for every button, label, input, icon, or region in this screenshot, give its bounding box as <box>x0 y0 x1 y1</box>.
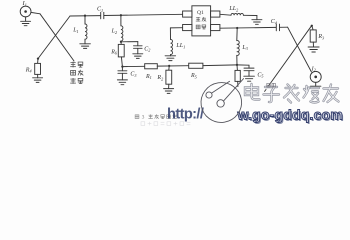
svg-text:C1: C1 <box>97 7 103 13</box>
svg-text:L2: L2 <box>111 29 117 35</box>
op-amp U1 box Q1 (amplifier module) <box>183 6 220 36</box>
node (L1 junction) <box>84 15 86 17</box>
capacitor C4 (series output) <box>276 24 279 31</box>
ground under C5 <box>244 76 255 81</box>
node (L2 junction) <box>120 14 122 16</box>
svg-text:R4: R4 <box>25 67 32 73</box>
svg-text:w.go-gddq.com: w.go-gddq.com <box>237 107 344 123</box>
ground under LL1 <box>165 56 176 61</box>
resistor R5 (horizontal) <box>189 63 203 68</box>
svg-text:3: 3 <box>142 115 145 121</box>
caption faint second row <box>141 122 190 126</box>
svg-text:C5: C5 <box>257 72 263 78</box>
svg-text:R6: R6 <box>110 49 118 55</box>
annotation hand-drawn circle <box>198 79 244 126</box>
resistor R7 (under bias junction) <box>235 65 240 87</box>
resistor R3 <box>310 26 316 47</box>
svg-text:C4: C4 <box>271 19 277 25</box>
ground under R2 <box>164 89 174 94</box>
wire from I1 to crossing <box>31 12 40 13</box>
resistor R6 (under L2) <box>118 42 124 67</box>
wire diagonal A_L (source to external link) <box>40 14 74 61</box>
ground under I2 <box>310 82 321 91</box>
resistor R4 (left bias) <box>35 59 41 78</box>
capacitor C1 (series) <box>101 12 104 18</box>
ground under I1 <box>21 17 31 26</box>
ground after LL2 <box>252 20 262 25</box>
wire diagonal B_L (node to top wire) <box>38 16 70 59</box>
capacitor C2 (shunt) <box>134 46 143 54</box>
svg-text:R2: R2 <box>156 75 163 81</box>
watermark gray brand text <box>245 84 339 103</box>
svg-text:I1: I1 <box>22 0 27 7</box>
svg-text:http://: http:// <box>167 107 204 123</box>
svg-text:LL1: LL1 <box>175 43 185 49</box>
ground under R4 <box>33 78 43 83</box>
svg-text:R5: R5 <box>190 73 197 79</box>
ground under L1 <box>80 44 91 49</box>
inductor L1 <box>85 16 87 44</box>
wire LL2 from pin <box>220 13 231 16</box>
svg-text:C2: C2 <box>144 46 150 52</box>
svg-text:LL2: LL2 <box>228 6 238 12</box>
svg-text:Q1: Q1 <box>197 10 204 16</box>
annotation tiny text marks <box>267 83 276 87</box>
wire amp output rail <box>220 26 276 29</box>
resistor R1 (horizontal) <box>145 64 158 69</box>
wire bottom rail seg1 <box>122 65 144 67</box>
inductor L2 <box>121 15 123 42</box>
wire to C2 <box>121 42 138 46</box>
wire bottom rail seg3 <box>203 64 237 67</box>
svg-text:L3: L3 <box>241 45 247 51</box>
caption figure 3 text <box>135 114 177 120</box>
svg-text:C3: C3 <box>130 72 136 78</box>
node (left, junction dot) <box>37 57 39 59</box>
watermark url domain <box>237 107 345 124</box>
ground under C3 <box>117 80 127 85</box>
ground under C2 <box>133 54 143 59</box>
svg-text:L1: L1 <box>72 28 78 34</box>
port I1 (signal source circle) <box>20 6 31 17</box>
wire to C5 <box>237 65 249 68</box>
inductor L3 <box>237 28 239 65</box>
node (bottom rail left) <box>121 65 123 67</box>
capacitor C5 (shunt) <box>244 68 254 76</box>
svg-text:I2: I2 <box>311 66 316 72</box>
wire LL1 from pin <box>170 28 182 40</box>
label Q1 module text <box>196 10 206 29</box>
node annotation text (connect matching circuit) <box>70 62 83 84</box>
node (L3 / bias junction) <box>236 64 238 66</box>
wire top rail (left of C1) <box>70 15 101 17</box>
wire after C4 <box>280 26 288 28</box>
port I2 (output circle) <box>310 71 321 82</box>
node (output pin junction) <box>236 27 238 29</box>
node (R3 junction dot) <box>311 25 313 27</box>
wire diagonal B_R (node to external link) <box>265 26 312 92</box>
wire diagonal A_R (to output port) <box>288 27 312 72</box>
inductor LL2 <box>231 13 257 19</box>
svg-text:R3: R3 <box>317 34 324 40</box>
wire top rail (right of C1) <box>104 14 183 15</box>
resistor R2 (vertical to ground) <box>166 66 172 89</box>
wire bottom rail seg2 <box>157 65 188 67</box>
node (R2 junction) <box>168 65 170 67</box>
svg-text:R1: R1 <box>145 74 152 80</box>
ground under R3 <box>308 47 319 52</box>
capacitor C3 (shunt under node) <box>118 67 127 80</box>
inductor LL1 <box>170 39 172 55</box>
node (below L2) <box>120 41 122 43</box>
